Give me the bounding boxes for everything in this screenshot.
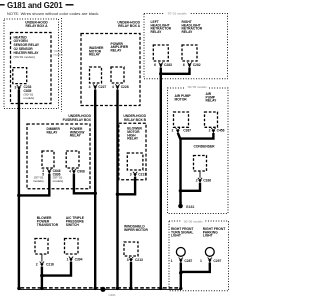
junction node on power amplifier wire (116, 193, 120, 197)
condenser (194, 156, 207, 172)
connector arrow C456 (211, 128, 215, 133)
right front parking light label (203, 227, 225, 238)
svg-text:1: 1 (171, 259, 173, 263)
svg-text:C394: C394 (75, 258, 83, 262)
power window relay (66, 151, 79, 168)
connector arrow C217 (133, 172, 137, 177)
svg-text:C456: C456 (217, 129, 225, 133)
svg-text:LIGHT: LIGHT (171, 234, 181, 238)
svg-text:C216: C216 (46, 262, 54, 266)
wire B washer motor relay to ground bus (94, 90, 96, 289)
svg-text:G181: G181 (186, 205, 195, 209)
front lights box (dotted, '00-'05 models) (169, 219, 229, 291)
svg-text:MOTOR: MOTOR (175, 98, 188, 102)
windshield wiper motor (124, 242, 138, 256)
svg-text:CONDENSER: CONDENSER (194, 144, 216, 148)
under-hood relay box A (outer dotted box) (4, 19, 59, 109)
wire dimmer relay to main left wire (19, 174, 49, 196)
under-hood relay box B (dashed) (119, 114, 147, 180)
junction node blower/ac wires (40, 274, 44, 278)
connector arrow C394 (69, 257, 73, 262)
left headlight retractor relay (153, 45, 168, 61)
svg-text:4: 4 (69, 170, 71, 174)
svg-text:G181 and G201: G181 and G201 (7, 1, 63, 10)
svg-text:RELAY: RELAY (127, 137, 139, 141)
right headlight retractor relay label (182, 20, 203, 34)
washer motor relay label (89, 46, 104, 57)
svg-text:3: 3 (14, 86, 16, 90)
svg-text:LIGHT: LIGHT (203, 234, 213, 238)
under-hood relay box A (middle, dashed) (81, 20, 141, 105)
svg-text:4: 4 (89, 85, 91, 89)
svg-text:models): models) (53, 179, 64, 183)
junction node power amplifier wire at bus (116, 287, 119, 290)
wire power window relay to washer motor wire (74, 174, 95, 194)
svg-text:C201: C201 (109, 293, 117, 297)
svg-text:C297: C297 (213, 259, 221, 263)
svg-text:6: 6 (183, 63, 185, 67)
wire blower motor high relay to power amplifier wire (118, 177, 136, 195)
junction node blower wire at bus (40, 287, 43, 290)
svg-text:2: 2 (209, 129, 211, 133)
svg-text:RELAY: RELAY (206, 99, 218, 103)
svg-text:C217: C217 (138, 172, 146, 176)
junction node lights wire at bus (179, 287, 182, 290)
dimmer relay (42, 151, 54, 168)
svg-text:2: 2 (196, 178, 198, 182)
left headlight retractor relay label (151, 20, 172, 34)
right front turn signal light bulb (176, 248, 185, 257)
right front turn signal light label (171, 227, 193, 238)
svg-text:'97-'01 models: '97-'01 models (167, 11, 187, 15)
wire from right headlight retractor relay (161, 68, 190, 74)
washer motor relay (90, 67, 102, 83)
svg-text:6: 6 (154, 63, 156, 67)
svg-text:C287: C287 (184, 259, 192, 263)
headlight retractor box (dotted, '97-'01 models) (144, 11, 228, 79)
svg-text:models: models (53, 53, 63, 57)
svg-text:C283: C283 (164, 63, 172, 67)
dimmer relay label (47, 127, 61, 134)
air pump relay label (206, 92, 218, 103)
svg-text:RELAY: RELAY (111, 48, 123, 52)
blower power transistor label (37, 216, 59, 227)
a/c triple pressure switch label (66, 216, 85, 227)
power amplifier relay (111, 67, 124, 83)
svg-text:('00-'01 models): ('00-'01 models) (14, 55, 35, 59)
connector arrow C387 (176, 128, 180, 133)
svg-text:WIPER MOTOR: WIPER MOTOR (124, 228, 148, 232)
connector arrow C287 (179, 258, 183, 263)
wire blower power transistor down (41, 267, 43, 289)
connector arrow C213 (129, 257, 133, 262)
heated oxygen sensor relay (13, 68, 27, 84)
power amplifier relay label (111, 42, 129, 53)
svg-text:C228: C228 (121, 85, 129, 89)
svg-text:C213: C213 (135, 258, 143, 262)
air pump relay (205, 112, 218, 127)
svg-text:C227: C227 (98, 85, 106, 89)
svg-text:RELAY: RELAY (47, 130, 59, 134)
svg-text:models): models) (33, 179, 44, 183)
connector arrow C906 (72, 169, 76, 174)
svg-text:C387: C387 (183, 129, 191, 133)
heated oxygen sensor relay unit box (11, 33, 52, 104)
wire E left headlight retractor relay down to ground bus (160, 68, 162, 289)
title G181 and G201 (0, 1, 74, 10)
junction node retractor wires (159, 72, 163, 76)
wire A from heated oxygen sensor relay down to ground bus (18, 90, 20, 289)
svg-text:'00-'05 models: '00-'05 models (183, 220, 203, 224)
svg-text:2: 2 (36, 262, 38, 266)
connector arrow C186 (198, 178, 202, 183)
a/c triple pressure switch (65, 239, 79, 255)
svg-text:1: 1 (67, 258, 69, 262)
ground G181 (178, 203, 194, 209)
svg-text:RELAY: RELAY (70, 134, 82, 138)
wire condenser to junction (181, 183, 201, 191)
blower power transistor (35, 239, 48, 255)
connector arrow C216 (40, 262, 44, 267)
svg-text:3: 3 (130, 172, 132, 176)
blower motor high relay (127, 153, 143, 170)
wire F air pump motor down to ground (178, 133, 181, 204)
svg-text:RELAY: RELAY (89, 53, 101, 57)
air pump box (dotted, '00-'05 models) (168, 85, 229, 214)
windshield wiper motor label (124, 225, 148, 232)
junction node light wires (179, 271, 183, 275)
connector labels C648 / C836 (53, 169, 64, 183)
under-hood fuse/relay box (dashed) (27, 114, 92, 189)
wire right front parking light (181, 263, 210, 272)
right headlight retractor relay (182, 45, 197, 61)
junction node wiper wire at bus (129, 287, 132, 290)
model year divider dotted line '00-'05 models (53, 18, 63, 112)
junction node on washer motor wire (93, 192, 97, 196)
blower motor high relay label (127, 127, 142, 141)
wire air pump relay joining air pump motor wire (180, 133, 213, 139)
junction node washer wire at bus (94, 287, 97, 290)
connector arrow C297 (208, 258, 212, 263)
connector arrow C227 (93, 84, 97, 89)
svg-text:TRANSISTOR: TRANSISTOR (37, 223, 59, 227)
connector arrow C648 (47, 169, 51, 174)
svg-text:C282: C282 (193, 63, 201, 67)
junction node on wire A (17, 194, 21, 198)
svg-text:'00-'05 models: '00-'05 models (187, 85, 207, 89)
wire C power amplifier relay to ground bus (116, 90, 118, 289)
wire D windshield wiper motor to ground bus (130, 262, 132, 288)
svg-text:NOTE: Wires shown without colo: NOTE: Wires shown without color codes ar… (7, 11, 99, 16)
svg-text:RELAY BOX A: RELAY BOX A (118, 24, 141, 28)
right front parking light bulb (205, 248, 214, 257)
connector arrow C228 (115, 84, 119, 89)
svg-text:FUSE/RELAY BOX: FUSE/RELAY BOX (63, 118, 92, 122)
svg-text:4: 4 (112, 85, 114, 89)
air pump motor label (175, 94, 192, 101)
connector arrow C233 (17, 85, 21, 90)
connector C201 on bus (100, 287, 116, 298)
power window relay label (70, 127, 85, 137)
thin lead blower power transistor (41, 254, 43, 262)
svg-text:3: 3 (127, 258, 129, 262)
junction node retractor wire at bus (159, 287, 162, 290)
svg-text:RELAY: RELAY (182, 30, 194, 34)
connector arrow C282 (187, 62, 191, 67)
svg-text:RELAY BOX B: RELAY BOX B (124, 118, 147, 122)
ground bus line to G201 (19, 288, 182, 290)
air pump motor (174, 112, 189, 127)
svg-text:2: 2 (171, 129, 173, 133)
dimmer relay pins 3 / 5 (33, 169, 44, 183)
svg-text:C186: C186 (203, 178, 211, 182)
connector label C233 / C835 (24, 85, 35, 100)
svg-text:RELAY: RELAY (151, 30, 163, 34)
wire a/c triple pressure switch to blower wire (42, 262, 71, 276)
svg-text:models): models) (24, 96, 35, 100)
thin lead condenser to arrow (199, 171, 201, 178)
svg-text:1: 1 (200, 259, 202, 263)
svg-text:SWITCH: SWITCH (66, 223, 80, 227)
junction node condenser/air pump (179, 189, 183, 193)
svg-text:C906: C906 (77, 170, 85, 174)
svg-text:RELAY BOX A: RELAY BOX A (26, 24, 49, 28)
wire G turn signal light to ground bus (180, 263, 182, 289)
connector arrow C283 (159, 62, 163, 67)
junction node wire A at bus (17, 287, 20, 290)
